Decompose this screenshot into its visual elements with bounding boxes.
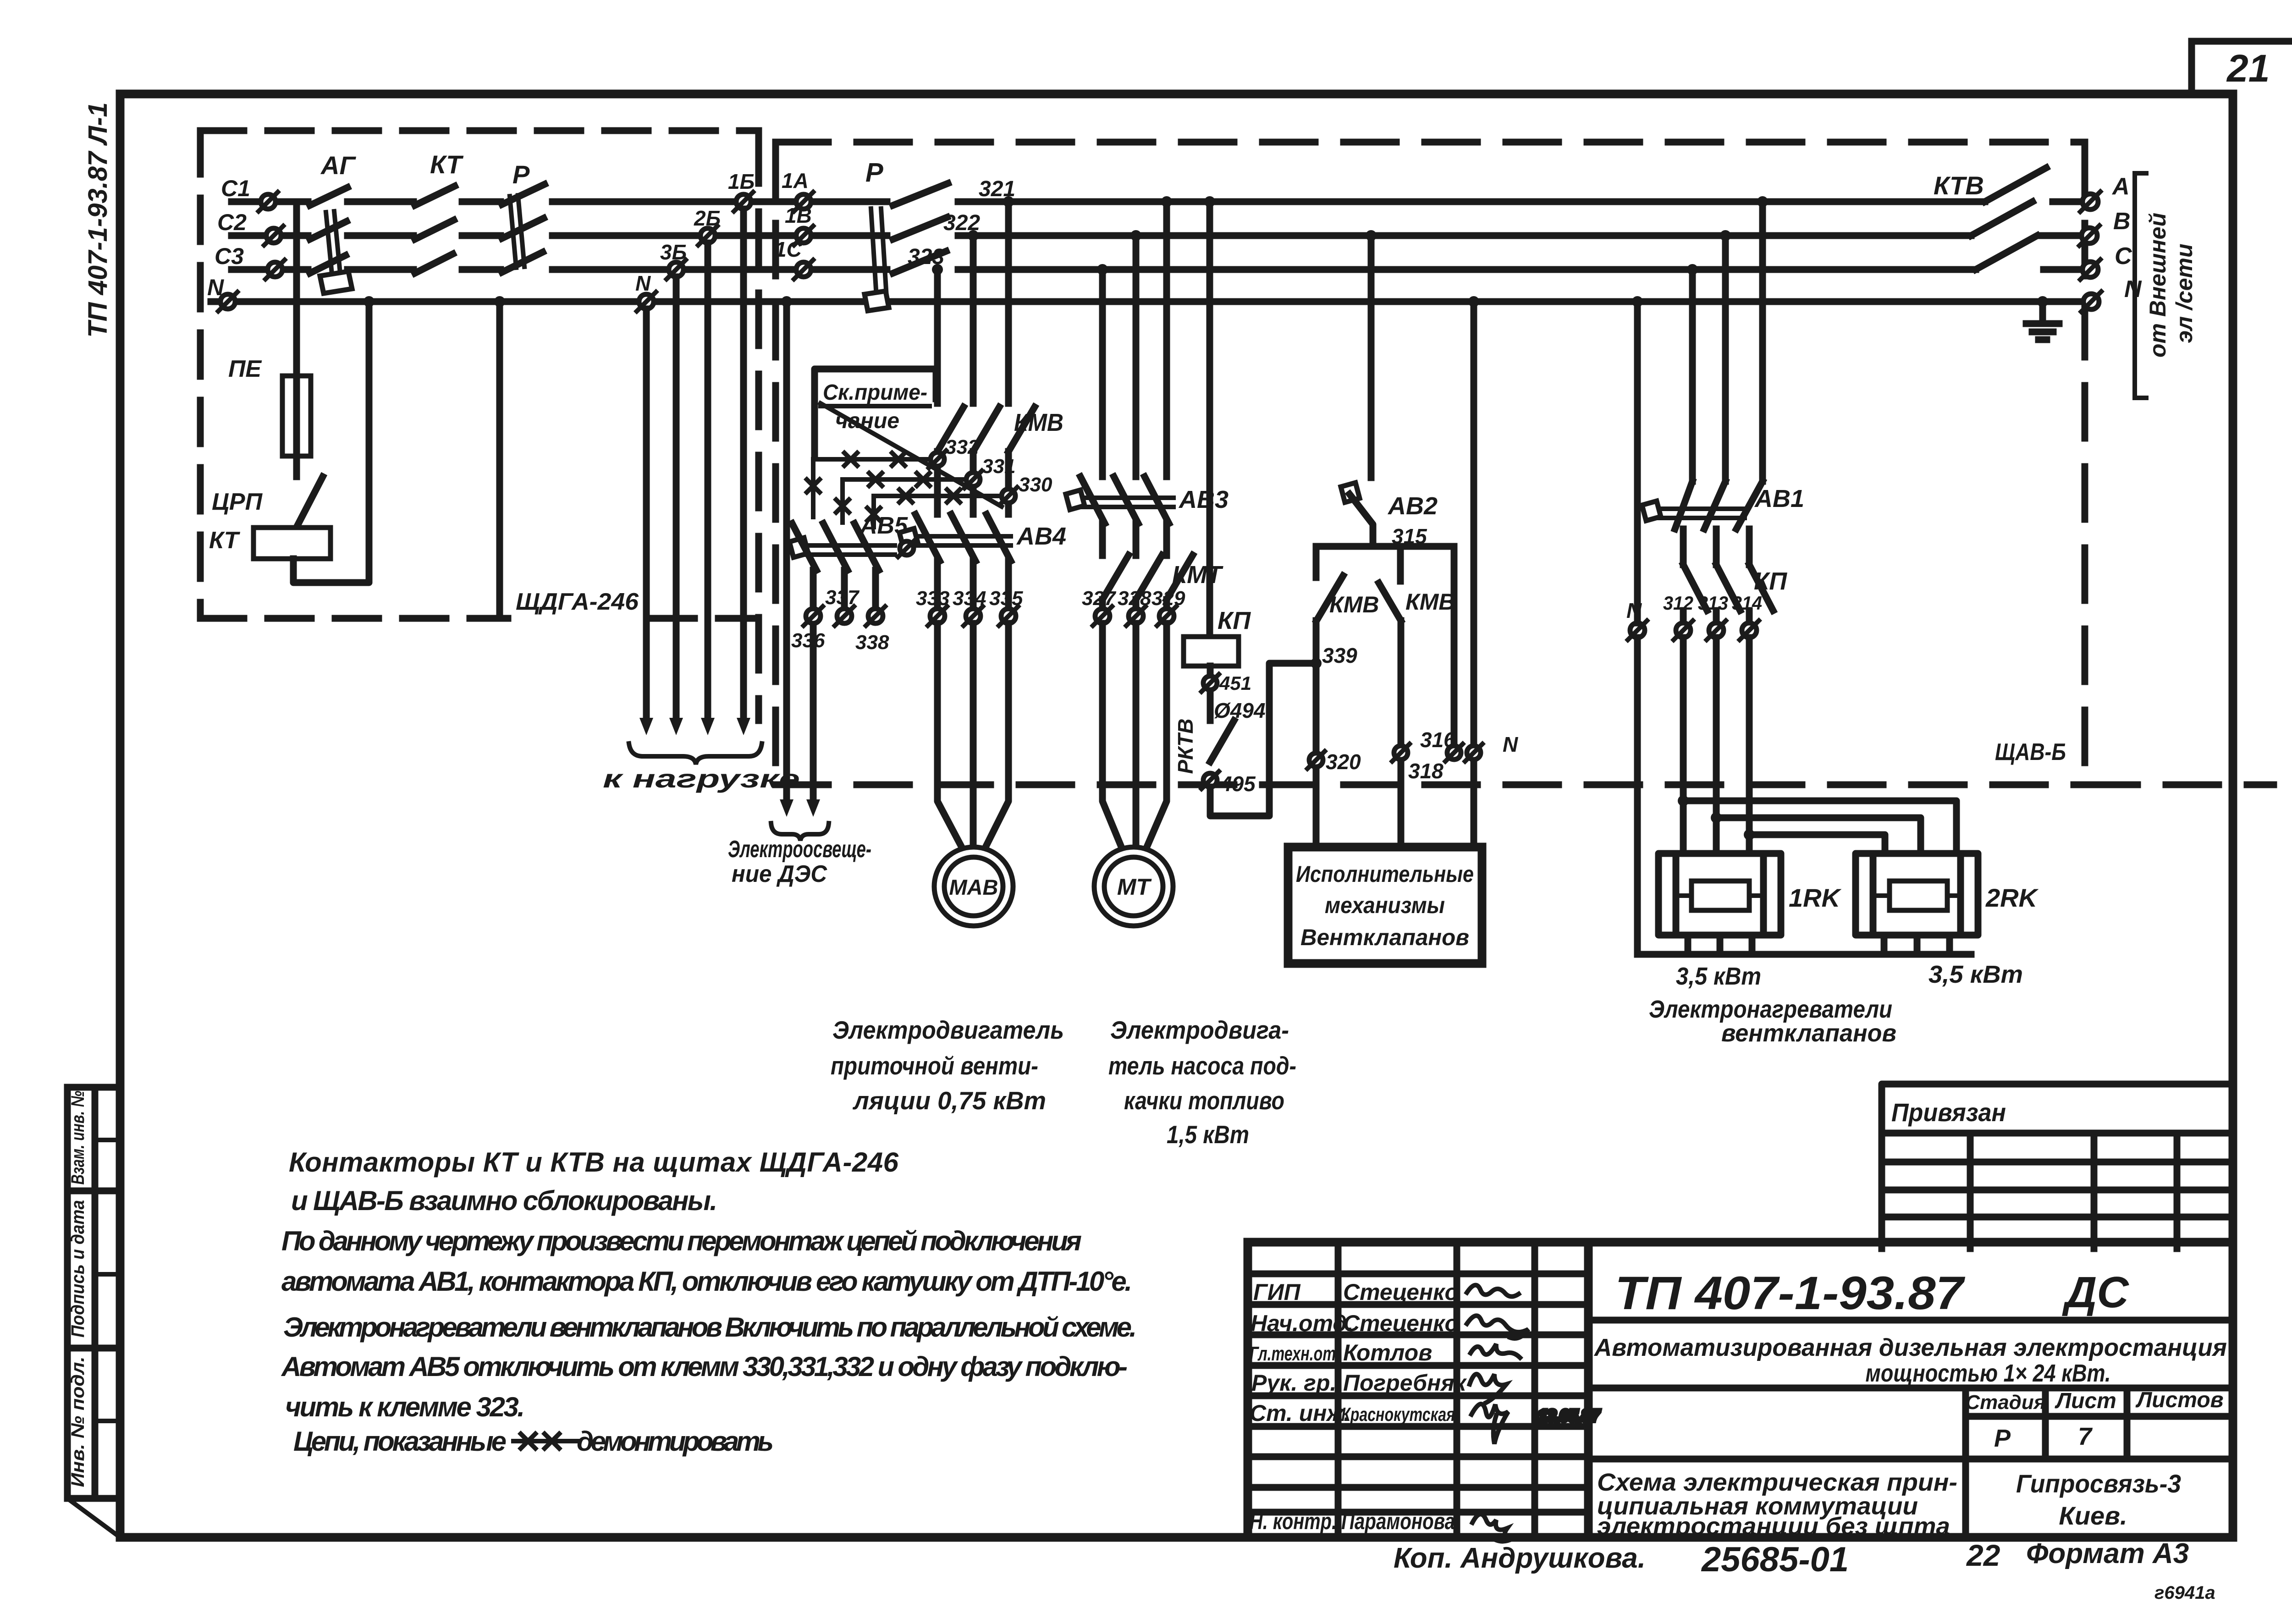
svg-text:Электродвига-: Электродвига- [1110,1016,1289,1044]
svg-text:Автомат АВ5 отключить от клемм: Автомат АВ5 отключить от клемм 330,331,3… [281,1351,1128,1382]
svg-text:451: 451 [1219,672,1251,694]
svg-text:Стеценко: Стеценко [1343,1279,1459,1305]
svg-text:ГИП: ГИП [1253,1279,1301,1305]
svg-text:3,5 кВт: 3,5 кВт [1676,963,1761,990]
wires to motor МТ [1102,623,1167,849]
wire 318 [1398,621,1405,847]
svg-text:Электронагреватели: Электронагреватели [1649,996,1892,1023]
svg-text:Взам. инв. №: Взам. инв. № [68,1090,88,1184]
svg-text:КМВ: КМВ [1405,589,1455,615]
svg-text:демонтировать: демонтировать [577,1426,774,1457]
heater bottom leads [1637,935,1971,954]
svg-text:Лист: Лист [2055,1389,2116,1413]
terminals 312 313 314 [1663,592,1693,640]
demolition legend symbol [513,1434,579,1448]
wire N to valve box [1468,296,1479,847]
node heater phase B [1720,230,1731,241]
svg-text:Киев.: Киев. [2059,1501,2127,1530]
wire N stub down [494,296,505,617]
contactor КМТ blades [1102,555,1193,600]
brace к нагрузке [629,743,762,765]
wire 3Б drop [669,277,683,735]
svg-text:АГ: АГ [320,151,356,180]
breaker АВ4 linkage [899,528,1011,548]
svg-text:Гл.техн.от: Гл.техн.от [1250,1343,1336,1365]
node 321 [979,177,1015,207]
terminal N load [637,292,656,311]
svg-text:КП: КП [1754,567,1787,595]
wires below КМВ [937,451,1008,514]
svg-text:КП: КП [1218,607,1251,634]
wire РКТВ loop to node 339 [1210,658,1322,816]
svg-text:Вентклапанов: Вентклапанов [1300,925,1469,950]
wire coil return to N [293,296,375,583]
svg-text:Ø494: Ø494 [1214,699,1266,722]
brace lighting [771,823,829,841]
terminal 2Б [698,226,717,245]
svg-text:приточной венти-: приточной венти- [831,1051,1038,1080]
contact РКТВ blade [1210,721,1234,762]
wire 1Б drop [737,209,750,735]
terminal C [2080,243,2132,280]
svg-text:3,5 кВт: 3,5 кВт [1928,961,2023,988]
terminal N valve [1465,732,1518,761]
svg-text:339: 339 [1322,644,1357,667]
node АВ2 feed [1366,230,1377,241]
svg-text:АВ4: АВ4 [1016,523,1066,550]
svg-text:338: 338 [855,631,889,654]
terminal 3Б [667,260,686,279]
svg-text:Стадия: Стадия [1965,1391,2045,1414]
demolition x marks [807,453,960,521]
svg-text:А: А [2111,173,2130,200]
svg-text:313: 313 [1698,592,1728,614]
terminals 336 337 338 [791,606,825,652]
svg-text:1С: 1С [775,237,802,261]
svg-text:21: 21 [2226,47,2270,90]
svg-text:Котлов: Котлов [1343,1340,1432,1365]
svg-text:320: 320 [1326,750,1361,774]
svg-text:Ст. инж.: Ст. инж. [1250,1400,1350,1426]
left margin cells [67,1087,120,1537]
wire 2Б drop [701,243,715,735]
svg-text:Инв. № подл.: Инв. № подл. [68,1357,88,1487]
svg-text:Погребняк: Погребняк [1343,1370,1467,1396]
sheet number box 21 [2192,41,2292,94]
switch Р left linkage bar [510,195,524,268]
wire below coil [1207,666,1214,721]
contactor КМВ blades [937,407,1035,451]
svg-text:С2: С2 [217,209,247,235]
terminal B [2079,208,2131,246]
svg-text:Контакторы КТ и КТВ на щитах: Контакторы КТ и КТВ на щитах ЩДГА-246 [289,1147,899,1178]
demolished chain terminals 332 331 330 [929,436,979,468]
contact КМВ-1 blade [1317,576,1343,621]
coil КП [1184,637,1239,666]
wire distribution bar [1316,546,1454,744]
heater 1RK [1658,853,1781,935]
contactor КТ linkage bar [415,186,455,273]
svg-text:Автоматизированная дизельная: Автоматизированная дизельная электростан… [1593,1334,2227,1361]
svg-text:2Б: 2Б [694,206,721,230]
svg-text:N: N [1503,732,1518,756]
terminal 1С [794,260,813,279]
node КП coil feed [1204,196,1215,207]
svg-text:Схема электрическая прин-: Схема электрическая прин- [1597,1469,1957,1496]
wire lighting N [780,296,793,817]
terminal 451 [1201,672,1251,694]
note box Ск.примечание [815,369,1002,506]
terminal 316 [1420,728,1463,761]
breaker АВ2 blade [1350,494,1373,546]
svg-text:Нач.отд.: Нач.отд. [1251,1310,1353,1336]
sheet code rotated label [83,102,113,338]
breaker АВ3 linkage [1066,490,1174,510]
svg-text:3Б: 3Б [660,240,687,264]
svg-text:7: 7 [2078,1423,2093,1450]
svg-text:КТВ: КТВ [1934,171,1984,200]
svg-text:ТП 407-1-93.87 Л-1: ТП 407-1-93.87 Л-1 [83,102,113,338]
svg-text:Формат А3: Формат А3 [2026,1538,2189,1569]
demolished wire chain 3 [874,496,1002,527]
svg-text:332: 332 [945,436,979,458]
svg-text:ТП 407-1-93.87: ТП 407-1-93.87 [1615,1267,1966,1319]
svg-text:1RK: 1RK [1789,883,1842,912]
svg-text:ляции 0,75 кВт: ляции 0,75 кВт [852,1086,1046,1115]
svg-text:АВ3: АВ3 [1178,486,1229,513]
wire 323 drop [934,270,941,403]
svg-text:Р: Р [512,160,530,189]
svg-text:1В: 1В [785,204,812,227]
breaker АВ1 linkage [1642,501,1745,521]
svg-text:МТ: МТ [1117,874,1152,900]
svg-text:автомата АВ1, контактора КП, о: автомата АВ1, контактора КП, отключив ег… [281,1266,1132,1297]
crossover wires to 2RK [1678,795,1956,853]
svg-text:Подпись и дата: Подпись и дата [68,1200,88,1338]
svg-text:Исполнительные: Исполнительные [1296,861,1474,887]
motor МАВ [934,847,1013,926]
switch Р left blades [502,184,545,272]
handwritten visas [1467,1285,1600,1541]
node heater phase C [1687,264,1698,275]
svg-text:В: В [2113,208,2131,235]
wires down to АВ3 [1102,202,1167,477]
terminal 1В [794,226,813,245]
node АВ3 phase B [1130,230,1141,241]
svg-text:тель насоса под-: тель насоса под- [1108,1051,1296,1080]
svg-text:ние ДЭС: ние ДЭС [732,861,827,887]
breaker АВ1 blades [1675,481,1763,529]
svg-text:ЩАВ-Б: ЩАВ-Б [1995,739,2066,765]
wire N heater drop [1632,296,1643,954]
svg-text:25685-01: 25685-01 [1701,1540,1849,1579]
node АВ3 phase A [1161,196,1172,207]
svg-text:13.05.87: 13.05.87 [1538,1407,1600,1425]
svg-text:Краснокутская: Краснокутская [1341,1404,1455,1425]
contactor АГ blades [310,187,347,273]
terminal N out [2081,276,2142,312]
wires КМТ to terminals [1102,600,1167,608]
svg-text:ЩДГА-246: ЩДГА-246 [516,589,639,615]
wire B to АВ2 [1368,236,1375,478]
fuse ПЕ [282,376,311,477]
bus C3 [231,266,1976,273]
node 322 [943,211,980,241]
svg-text:N: N [635,271,651,295]
wires phases into 1RK [1683,638,1749,853]
svg-text:АВ2: АВ2 [1387,492,1438,520]
svg-text:РКТВ: РКТВ [1174,719,1197,774]
svg-text:С1: С1 [221,176,250,201]
coil КТ [253,528,331,559]
bus C1 [231,198,1985,205]
svg-text:вентклапанов: вентклапанов [1721,1019,1896,1047]
terminal 318 [1392,744,1444,783]
panel ЩДГА-246 dashed enclosure [200,131,759,721]
svg-text:КМВ: КМВ [1014,409,1063,436]
svg-text:1А: 1А [782,169,809,193]
стадия table [1588,1388,2233,1537]
svg-text:323: 323 [908,245,944,269]
svg-text:С: С [2115,243,2132,270]
svg-text:322: 322 [943,211,980,235]
terminal N heater [1626,599,1647,640]
svg-text:КТ: КТ [430,150,464,179]
svg-text:АВ5: АВ5 [859,512,908,539]
wires to terminals [1683,611,1749,622]
wire C1 to fuse [293,202,300,376]
svg-text:чить к клемме 323.: чить к клемме 323. [285,1392,525,1422]
bus N [211,298,2083,305]
wires down to АВ1 [1692,202,1763,481]
svg-text:АВ1: АВ1 [1754,485,1804,512]
terminals 327 328 329 [1082,587,1117,626]
svg-text:и ЩАВ-Б взаимно сблокированы.: и ЩАВ-Б взаимно сблокированы. [291,1185,717,1216]
wire 322 drop [970,236,977,403]
svg-text:качки топливо: качки топливо [1124,1086,1284,1115]
node 323 [908,245,944,275]
svg-text:Цепи, показанные: Цепи, показанные [293,1426,507,1457]
svg-text:ЦРП: ЦРП [212,489,263,515]
svg-text:312: 312 [1663,592,1693,614]
svg-text:С3: С3 [215,243,244,269]
svg-text:Ск.приме-: Ск.приме- [823,380,927,405]
contactor Р blades [893,183,948,273]
svg-text:Коп. Андрушкова.: Коп. Андрушкова. [1394,1542,1646,1574]
terminal 1А [794,192,813,211]
svg-text:331: 331 [982,455,1015,478]
svg-text:Гипросвязь-3: Гипросвязь-3 [2016,1469,2181,1498]
node АВ3 phase C [1097,264,1108,275]
wire lighting phase from АВ5 [806,623,820,817]
svg-text:эл /сети: эл /сети [2171,243,2197,343]
svg-text:электростанции без щпта: электростанции без щпта [1597,1513,1950,1540]
svg-text:22: 22 [1966,1538,2000,1572]
svg-text:318: 318 [1408,759,1444,783]
demolished wire chain 1 [813,459,931,517]
svg-text:Н. контр.: Н. контр. [1250,1508,1337,1534]
svg-text:КТ: КТ [209,527,241,554]
wire 321 drop [1005,202,1012,403]
svg-text:механизмы: механизмы [1325,892,1445,918]
bus C2 [231,232,1971,239]
switch ЦРП blade [297,477,323,527]
breaker АВ5 blades [792,523,879,570]
svg-text:ПЕ: ПЕ [228,356,262,382]
svg-text:Электродвигатель: Электродвигатель [832,1016,1064,1044]
svg-text:от Внешней: от Внешней [2145,213,2171,358]
contactor Р linkage bar [865,209,889,311]
breaker АВ3 blades [1080,477,1169,523]
svg-text:Листов: Листов [2135,1388,2223,1412]
svg-text:г6941а: г6941а [2154,1583,2215,1603]
svg-text:1,5 кВт: 1,5 кВт [1167,1120,1249,1149]
svg-text:По данному чертежу произвести: По данному чертежу произвести перемонтаж… [281,1226,1082,1256]
motor МТ [1094,847,1173,926]
demolished wire chain 2 [843,479,966,523]
svg-text:Электронагреватели вентклапано: Электронагреватели вентклапанов Включить… [283,1312,1137,1343]
terminal 320 [1307,750,1361,774]
svg-text:Парамонова: Парамонова [1341,1508,1455,1534]
svg-text:314: 314 [1732,592,1762,614]
svg-text:КМТ: КМТ [1172,561,1223,589]
ground [2026,296,2059,340]
breaker АВ4 blades [915,514,1011,561]
contactor КП blades [1683,565,1773,611]
svg-text:Рук. гр.: Рук. гр. [1251,1370,1336,1396]
terminal 1Б [734,192,753,211]
svg-text:Р: Р [865,158,883,187]
svg-text:336: 336 [791,629,825,652]
svg-text:Привязан: Привязан [1891,1098,2006,1127]
wires АВ5 to terminals [813,570,876,608]
contact КМВ-2 blade [1379,583,1401,621]
terminals 333 334 335 [916,587,949,626]
svg-text:КМВ: КМВ [1329,592,1379,617]
wire 339 [1313,621,1320,847]
svg-text:Электроосвеще-: Электроосвеще- [728,836,871,863]
node heater phase A [1757,196,1768,207]
svg-text:Стеценко: Стеценко [1343,1310,1459,1336]
svg-text:495: 495 [1220,772,1256,796]
svg-text:2RK: 2RK [1985,883,2039,912]
wires АВ3 to КМТ [1102,523,1167,556]
terminal 495 [1201,771,1256,796]
svg-text:330: 330 [1019,473,1052,496]
wire N drop [639,309,653,735]
svg-text:МАВ: МАВ [949,875,998,899]
svg-text:1Б: 1Б [728,170,755,193]
svg-text:321: 321 [979,177,1015,201]
svg-text:к нагрузке: к нагрузке [603,764,800,793]
wires АВ4 to terminals [937,561,1008,608]
external net bracket [2135,173,2146,398]
output stubs [2041,202,2081,270]
breaker АВ2 hook [1341,483,1360,502]
svg-text:мощностью 1× 24 кВт.: мощностью 1× 24 кВт. [1866,1360,2111,1387]
box Исполнительные механизмы [1288,847,1482,963]
svg-text:ДС: ДС [2062,1268,2129,1317]
panel ЩАВ-Б dashed enclosure [776,142,2274,785]
svg-text:329: 329 [1152,587,1185,610]
breaker АВ5 linkage [789,538,895,557]
title block signatures [1250,1279,1467,1534]
contactor АГ linkage bar [320,211,352,293]
contactor КТВ blades [1971,168,2046,270]
svg-text:Р: Р [1994,1425,2011,1452]
wires АВ1 to КП [1683,529,1749,565]
wires to motor МАВ [937,623,1008,849]
heater 2RK [1856,853,1978,935]
terminal A [2080,173,2130,212]
wire C1 to КП coil [1207,202,1213,637]
bus entry terminals [218,192,285,311]
